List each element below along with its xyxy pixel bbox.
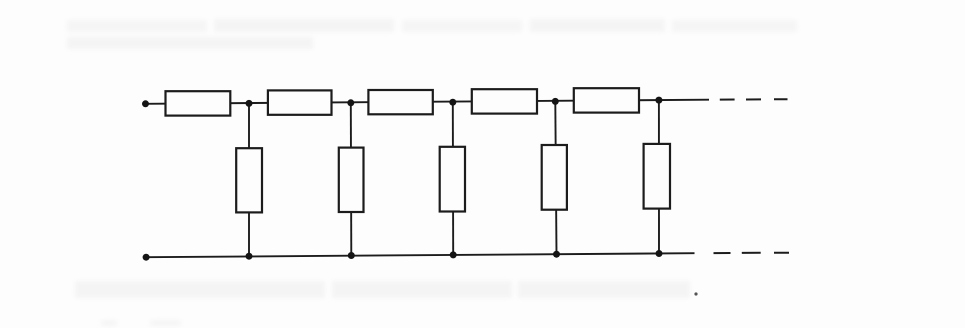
resistor R5 (series) <box>574 88 639 112</box>
wire: shunt branch 1 <box>248 103 250 256</box>
node junction 3 (top) <box>449 99 456 106</box>
node junction 2 (bottom) <box>348 252 355 259</box>
input terminal (top left) <box>142 100 149 107</box>
wire: top rail dashed continuation <box>720 98 788 100</box>
resistor R2 (series) <box>268 90 332 114</box>
node junction 5 (top) <box>655 97 662 104</box>
node junction 4 (top) <box>552 98 559 105</box>
node junction 3 (bottom) <box>450 251 457 258</box>
resistor R6 (shunt) <box>236 148 262 212</box>
faint bleed-through text (decorative, unlabelled) <box>67 19 797 326</box>
wire: bottom rail dashed continuation <box>714 252 790 254</box>
wire: shunt branch 5 <box>658 100 660 253</box>
wire: shunt branch 4 <box>555 101 556 254</box>
wire: shunt branch 2 <box>350 103 353 256</box>
resistor R8 (shunt) <box>440 147 465 212</box>
resistor R4 (series) <box>472 89 537 113</box>
resistor R1 (series) <box>166 91 231 115</box>
resistor R9 (shunt) <box>542 145 567 210</box>
input terminal (bottom left) <box>143 254 150 261</box>
resistor R7 (shunt) <box>339 148 364 212</box>
node junction 1 (top) <box>246 100 253 107</box>
wire: top rail <box>146 100 710 104</box>
node junction 5 (bottom) <box>656 250 663 257</box>
resistor R10 (shunt) <box>644 144 670 209</box>
wire: shunt branch 3 <box>452 102 454 255</box>
node junction 2 (top) <box>347 99 354 106</box>
resistor R3 (series) <box>368 90 432 114</box>
node junction 4 (bottom) <box>553 251 560 258</box>
wire: bottom rail <box>146 253 694 257</box>
node junction 1 (bottom) <box>246 253 253 260</box>
